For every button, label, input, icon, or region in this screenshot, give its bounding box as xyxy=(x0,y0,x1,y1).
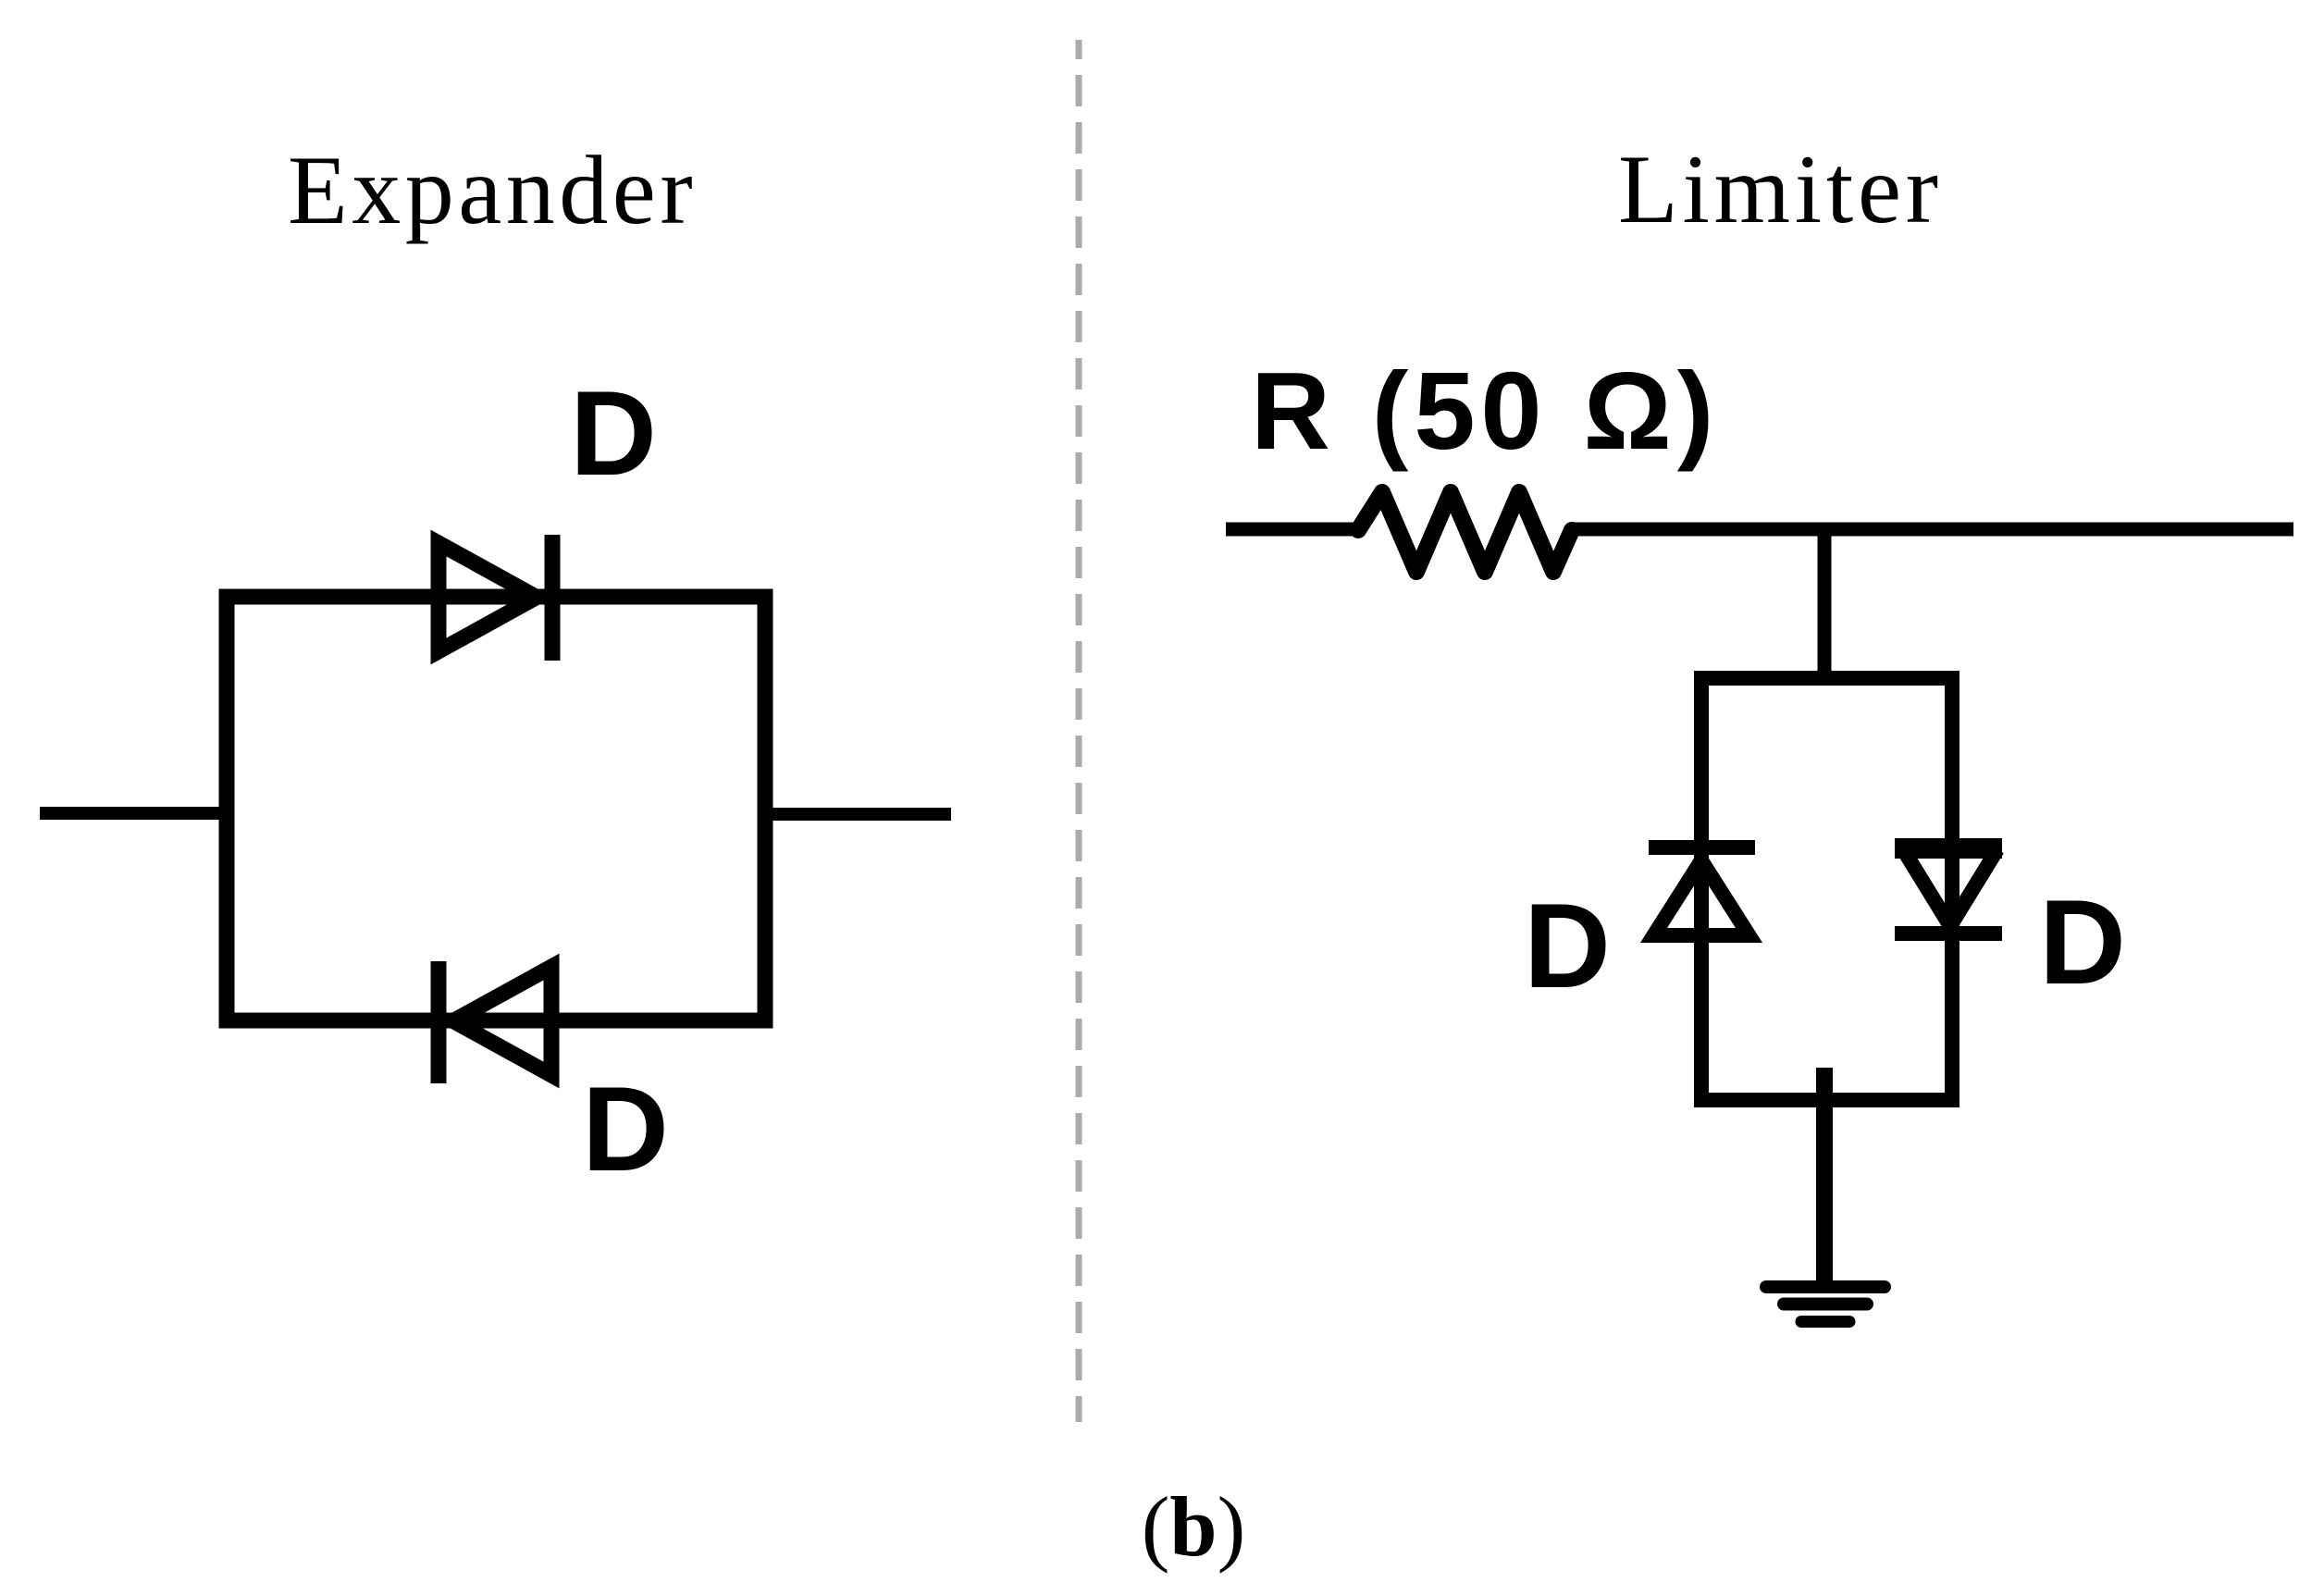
diode D (bottom, expander), pointing left xyxy=(439,961,551,1083)
resistor R wire left segment xyxy=(1226,523,1360,537)
svg-text:D: D xyxy=(2039,874,2126,1009)
resistor R zigzag xyxy=(1358,492,1572,572)
expander loop rectangle (wire) xyxy=(227,597,765,1020)
diode D (left, limiter), pointing up xyxy=(1649,847,1755,935)
wire right stub xyxy=(765,808,951,821)
diode D (right, limiter), pointing down xyxy=(1895,848,2002,934)
svg-text:(b): (b) xyxy=(1142,1479,1245,1574)
dashed separator line xyxy=(1076,40,1082,1422)
limiter parallel loop rectangle (wire) xyxy=(1701,678,1952,1100)
svg-text:D: D xyxy=(1524,878,1611,1013)
wire right segment to edge xyxy=(1570,523,2293,537)
svg-text:Limiter: Limiter xyxy=(1618,135,1943,243)
svg-text:D: D xyxy=(582,1061,669,1196)
svg-text:Expander: Expander xyxy=(288,136,697,244)
svg-text:D: D xyxy=(570,365,657,501)
svg-text:R (50 Ω): R (50 Ω) xyxy=(1251,350,1719,473)
ground symbol xyxy=(1766,1287,1885,1322)
diode D (top, expander), pointing right xyxy=(439,535,552,661)
wire ground stem xyxy=(1816,1068,1833,1280)
wire left stub xyxy=(40,807,227,820)
wire junction vertical drop xyxy=(1818,523,1832,686)
